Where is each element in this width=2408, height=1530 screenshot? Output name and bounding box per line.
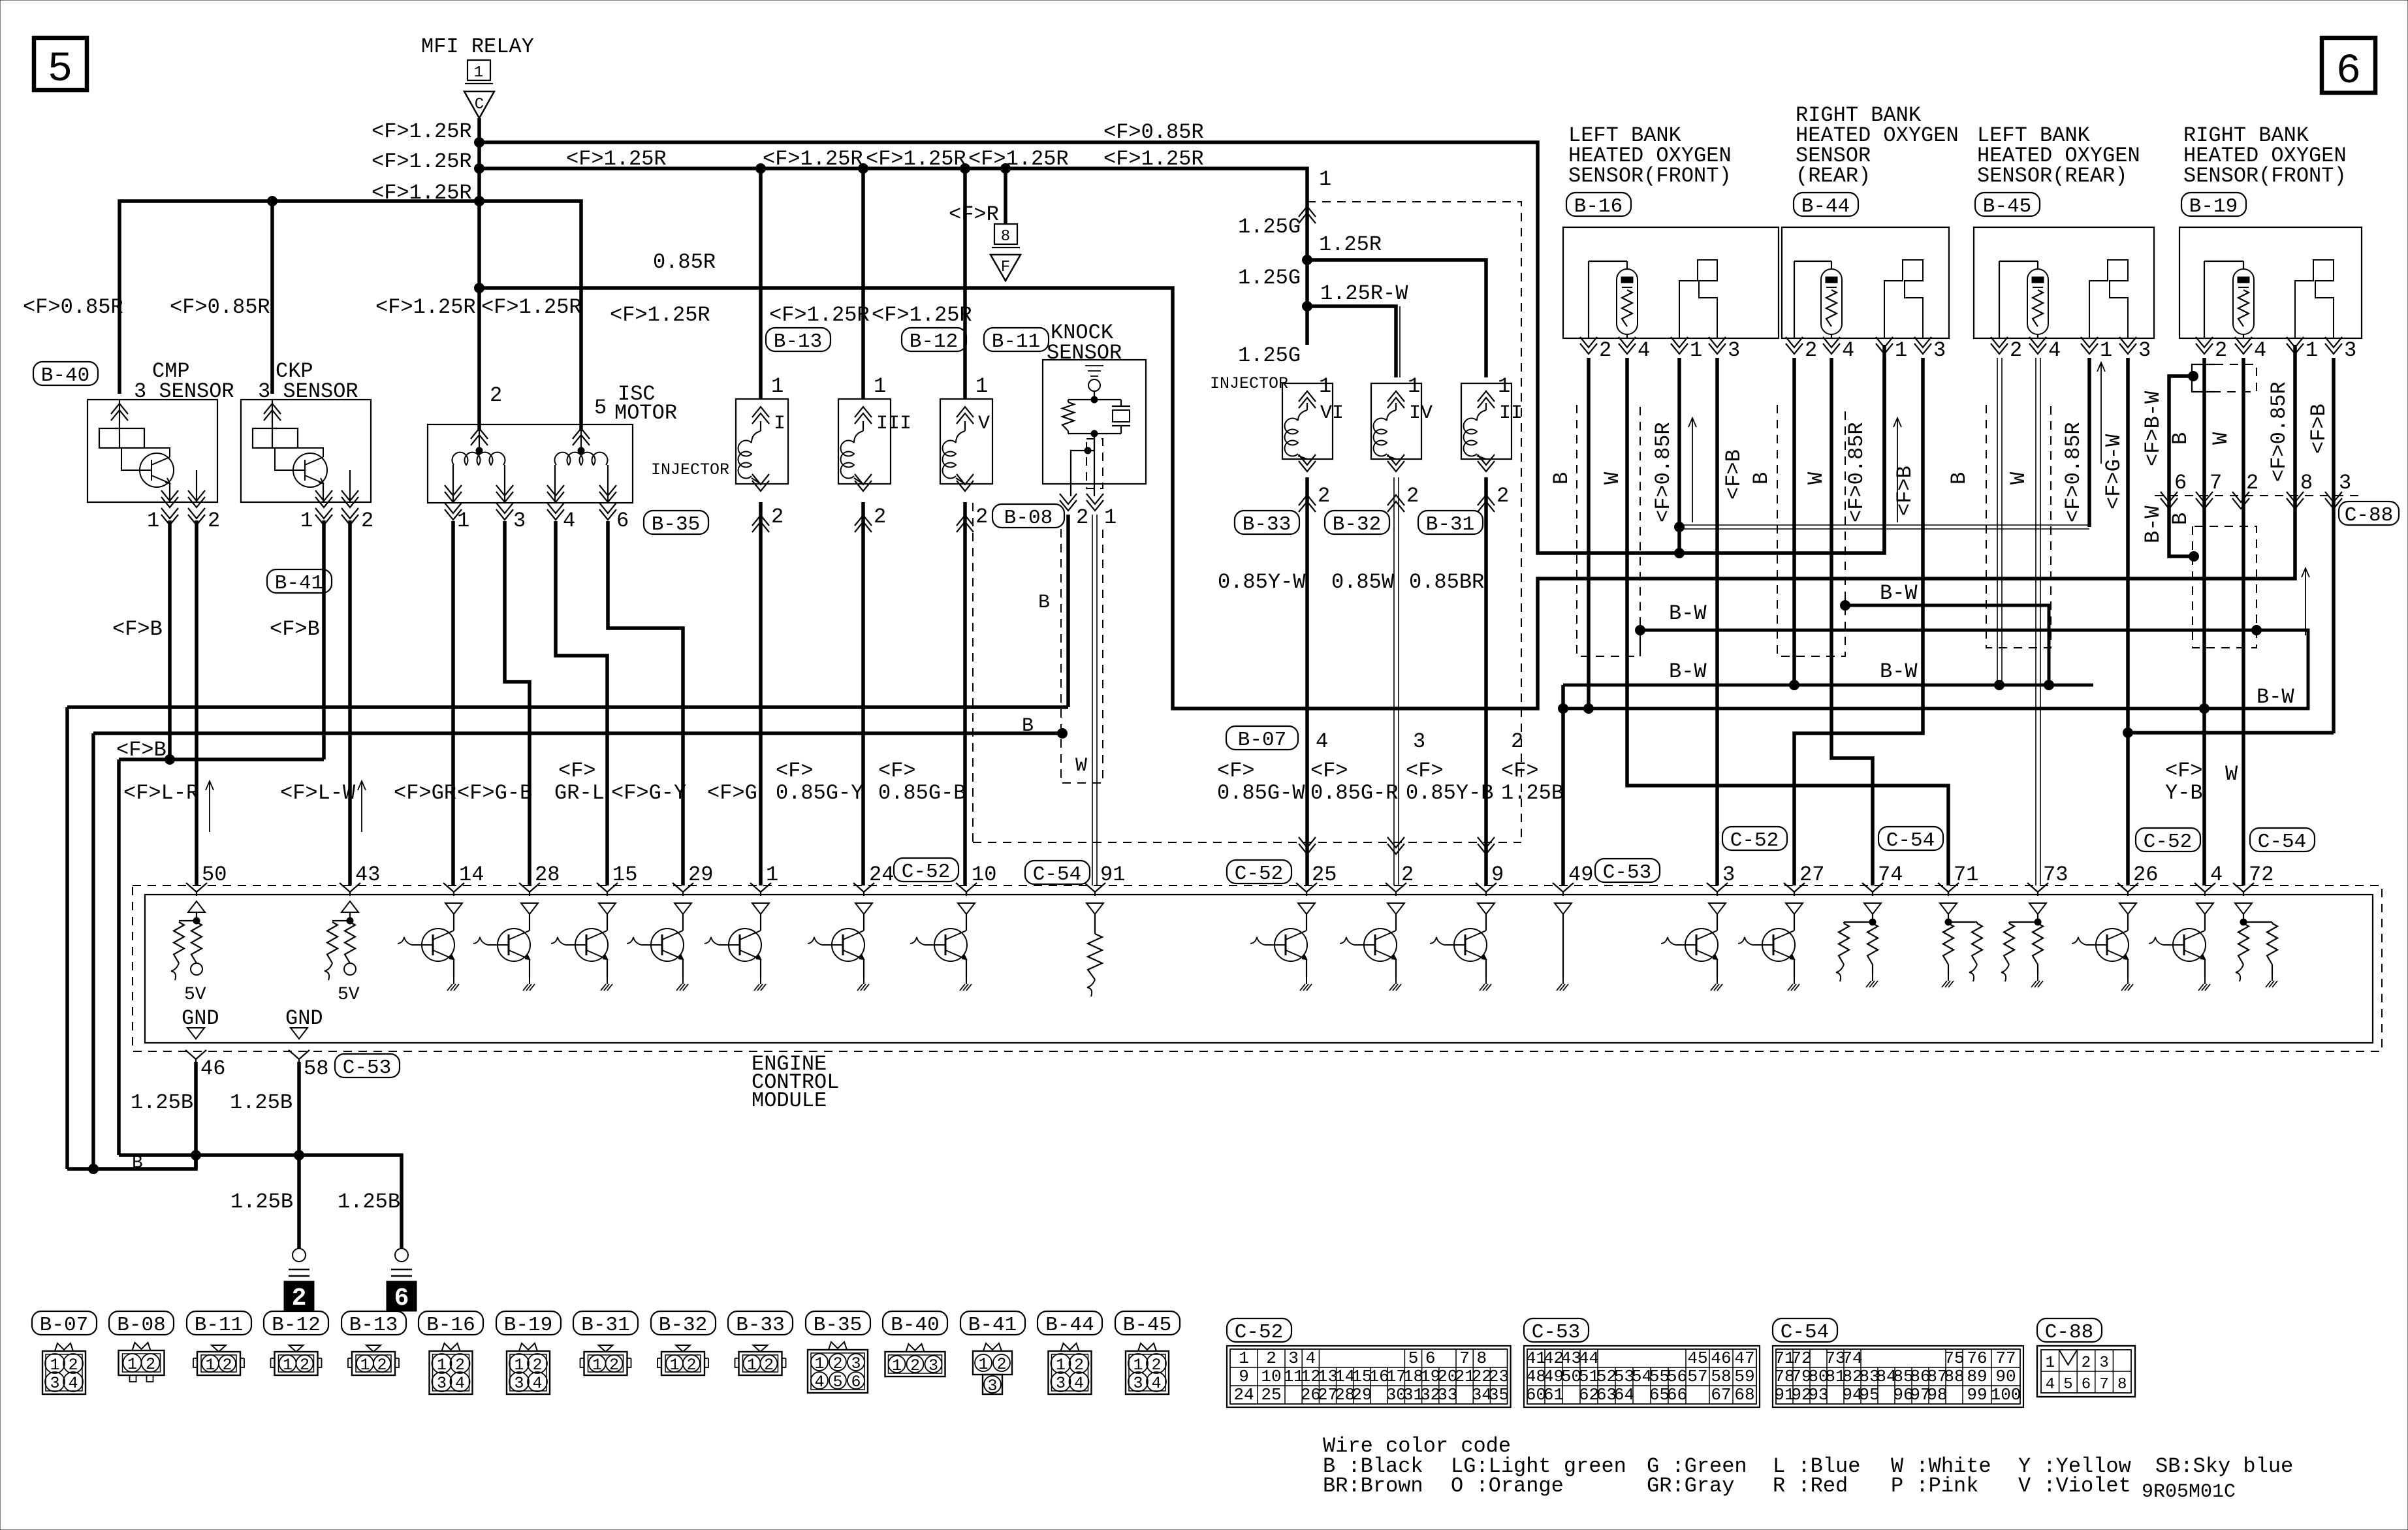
svg-text:<F>0.85R: <F>0.85R xyxy=(23,295,123,319)
svg-text:4: 4 xyxy=(1074,1374,1084,1393)
svg-text:89: 89 xyxy=(1967,1367,1987,1386)
svg-text:98: 98 xyxy=(1927,1385,1947,1405)
svg-text:1.25R: 1.25R xyxy=(1319,232,1382,257)
svg-text:59: 59 xyxy=(1734,1367,1754,1386)
svg-text:<F>: <F> xyxy=(1406,759,1444,783)
connector B-13 pinout xyxy=(341,1311,406,1335)
connector triangle C from MFI relay xyxy=(464,91,494,118)
svg-text:SENSOR: SENSOR xyxy=(1047,341,1122,365)
oxygen sensor B-16 heater xyxy=(1679,260,1717,338)
svg-text:2: 2 xyxy=(686,1356,696,1375)
svg-text:88: 88 xyxy=(1944,1367,1964,1386)
B ground bus right segment to ECM 26 xyxy=(2128,733,2334,885)
svg-text:<F>B: <F>B xyxy=(112,617,163,641)
svg-text:2: 2 xyxy=(910,1356,920,1375)
svg-text:B-32: B-32 xyxy=(659,1314,707,1337)
svg-text:1: 1 xyxy=(747,1356,757,1375)
labels B-33 B-32 B-31 xyxy=(1235,511,1299,534)
oxygen sensor B-44 box xyxy=(1782,227,1949,338)
labels B-13 B-12 B-11 xyxy=(766,328,831,351)
connector B-07 pinout xyxy=(32,1311,97,1335)
svg-text:5: 5 xyxy=(2063,1376,2072,1394)
svg-text:<F>1.25R: <F>1.25R xyxy=(566,147,667,171)
svg-text:1: 1 xyxy=(360,1356,370,1375)
svg-text:0.85G-Y: 0.85G-Y xyxy=(776,781,863,805)
oxygen sensor B-19 heater xyxy=(2295,260,2334,338)
svg-text:B-16: B-16 xyxy=(426,1314,475,1337)
svg-text:2: 2 xyxy=(975,505,988,529)
svg-text:5: 5 xyxy=(48,46,72,93)
svg-text:B-31: B-31 xyxy=(1426,513,1474,536)
svg-text:1.25B: 1.25B xyxy=(230,1091,293,1115)
svg-text:4: 4 xyxy=(1842,338,1854,362)
svg-text:B-19: B-19 xyxy=(504,1314,552,1337)
svg-text:2: 2 xyxy=(361,509,373,533)
svg-text:2: 2 xyxy=(146,1355,155,1374)
svg-text:<F>: <F> xyxy=(878,759,916,783)
svg-text:99: 99 xyxy=(1967,1385,1987,1405)
svg-text:<F>G-B: <F>G-B xyxy=(457,781,532,805)
connector B-11 pinout xyxy=(187,1311,251,1335)
svg-text:2: 2 xyxy=(874,505,886,529)
svg-text:1: 1 xyxy=(892,1356,902,1375)
oxygen sensor B-45 element xyxy=(1999,261,2000,338)
svg-text:44: 44 xyxy=(1579,1348,1599,1368)
svg-text:C-52: C-52 xyxy=(1235,863,1283,885)
B-W upper link xyxy=(1841,601,1850,611)
svg-text:49: 49 xyxy=(1568,863,1593,887)
svg-text:10: 10 xyxy=(972,863,996,887)
svg-text:<F>L-W: <F>L-W xyxy=(280,781,356,805)
svg-text:2: 2 xyxy=(1401,863,1414,887)
svg-text:7: 7 xyxy=(1459,1348,1470,1368)
svg-text:2: 2 xyxy=(996,1355,1006,1374)
svg-text:47: 47 xyxy=(1734,1348,1754,1368)
B ground bus left segment xyxy=(93,731,1062,735)
connector B-12 pinout xyxy=(264,1311,328,1335)
svg-text:C-53: C-53 xyxy=(1532,1321,1580,1344)
svg-text:100: 100 xyxy=(1991,1385,2021,1405)
svg-text:0.85Y-B: 0.85Y-B xyxy=(1406,781,1493,805)
svg-text:1: 1 xyxy=(766,863,778,887)
injector II wire to ECM 9 xyxy=(1484,477,1488,885)
svg-text:8: 8 xyxy=(2300,471,2313,495)
svg-text:B-12: B-12 xyxy=(272,1314,320,1337)
svg-text:INJECTOR: INJECTOR xyxy=(1210,374,1288,393)
svg-text:56: 56 xyxy=(1667,1367,1687,1386)
svg-text:O :Orange: O :Orange xyxy=(1451,1474,1564,1498)
svg-text:R :Red: R :Red xyxy=(1773,1474,1848,1498)
svg-text:4: 4 xyxy=(455,1374,465,1393)
wire 1.25R bus y=258 feeding injectors I/III/V and resistor pack xyxy=(479,168,1307,345)
svg-text:B-45: B-45 xyxy=(1983,195,2031,218)
svg-text:1.25B: 1.25B xyxy=(230,1190,293,1214)
svg-text:93: 93 xyxy=(1808,1385,1828,1405)
svg-text:<F>1.25R: <F>1.25R xyxy=(769,303,870,327)
svg-text:1.25R-W: 1.25R-W xyxy=(1320,281,1408,306)
svg-text:1: 1 xyxy=(1319,167,1331,191)
svg-text:B-W: B-W xyxy=(1880,660,1918,684)
svg-text:2: 2 xyxy=(300,1356,309,1375)
injector III B-1x xyxy=(861,168,865,399)
svg-text:3: 3 xyxy=(851,1354,861,1373)
svg-text:1: 1 xyxy=(283,1356,293,1375)
svg-text:68: 68 xyxy=(1734,1385,1754,1405)
CMP pin wires xyxy=(168,520,172,759)
svg-text:C-53: C-53 xyxy=(1603,861,1651,884)
svg-text:<F>: <F> xyxy=(1501,759,1539,783)
svg-text:1.25G: 1.25G xyxy=(1238,266,1301,290)
injector V B-1x xyxy=(963,168,967,399)
svg-text:GND: GND xyxy=(182,1006,219,1030)
svg-text:<F>0.85R: <F>0.85R xyxy=(1651,422,1675,522)
svg-text:4: 4 xyxy=(2210,863,2223,887)
ground ref box 6 xyxy=(387,1281,417,1311)
svg-text:B: B xyxy=(2168,432,2193,445)
oxygen sensor B-16 pins xyxy=(1580,337,1597,354)
oxygen sensor B-44 element xyxy=(1794,261,1795,338)
svg-text:V: V xyxy=(978,413,990,435)
svg-text:1: 1 xyxy=(1690,338,1702,362)
svg-text:C-52: C-52 xyxy=(902,861,950,884)
svg-text:1: 1 xyxy=(874,374,886,398)
wire CKP 0.85R drop xyxy=(270,201,274,394)
svg-text:<F>B: <F>B xyxy=(1893,466,1917,516)
svg-text:2: 2 xyxy=(771,505,784,529)
svg-text:<F>0.85R: <F>0.85R xyxy=(1845,422,1869,522)
svg-text:2: 2 xyxy=(1406,484,1419,508)
thin 0.85R link to B-45 xyxy=(1679,525,2089,529)
svg-text:5V: 5V xyxy=(184,985,206,1005)
svg-text:B-08: B-08 xyxy=(117,1314,165,1337)
B-16 pin3 wire to ECM 3 xyxy=(1715,358,1719,885)
svg-text:4: 4 xyxy=(563,509,575,533)
svg-text:B-40: B-40 xyxy=(891,1314,939,1337)
svg-text:<F>1.25R: <F>1.25R xyxy=(763,147,863,171)
connector triangle F xyxy=(990,255,1021,281)
ECM connector labels xyxy=(894,858,958,882)
svg-text:B-W: B-W xyxy=(2257,685,2294,709)
svg-text:1.25B: 1.25B xyxy=(338,1190,400,1214)
B-44 shield dashed box xyxy=(1777,405,1845,656)
svg-text:8: 8 xyxy=(1476,1348,1487,1368)
svg-text:B-35: B-35 xyxy=(652,513,700,536)
svg-text:0.85BR: 0.85BR xyxy=(1409,570,1484,594)
svg-text:Y-B: Y-B xyxy=(2165,781,2203,805)
B-W lower link pin49 xyxy=(1563,684,2093,687)
svg-text:6: 6 xyxy=(2082,1376,2091,1394)
svg-text:B-W: B-W xyxy=(1669,660,1707,684)
svg-text:B-31: B-31 xyxy=(581,1314,629,1337)
svg-text:2: 2 xyxy=(764,1356,774,1375)
svg-text:B-40: B-40 xyxy=(41,364,89,387)
connector B-35 pinout xyxy=(806,1311,870,1335)
svg-text:I: I xyxy=(774,413,785,435)
svg-text:VI: VI xyxy=(1320,402,1344,424)
junction dots on MFI feed xyxy=(475,138,484,148)
oxygen sensor B-45 label xyxy=(1975,193,2040,216)
svg-text:B: B xyxy=(132,1153,143,1173)
junction dot CKP feed xyxy=(268,197,277,206)
injector VI wire to ECM 25 xyxy=(1305,477,1309,885)
svg-text:64: 64 xyxy=(1614,1385,1634,1405)
oxygen sensor B-44 label xyxy=(1794,193,1858,216)
svg-text:24: 24 xyxy=(1233,1385,1254,1405)
svg-text:2: 2 xyxy=(2246,471,2258,495)
svg-text:2: 2 xyxy=(292,1284,307,1313)
svg-text:75: 75 xyxy=(1944,1348,1964,1368)
svg-text:<F>L-R: <F>L-R xyxy=(123,781,198,805)
svg-text:6: 6 xyxy=(1425,1348,1436,1368)
knock sensor shield dashed xyxy=(1061,529,1103,783)
svg-text:3: 3 xyxy=(1933,338,1946,362)
B-45 pin4 W thin wire to ECM 73 xyxy=(2036,358,2040,885)
ground symbol left xyxy=(293,1249,306,1262)
svg-text:1: 1 xyxy=(1104,505,1117,530)
svg-text:1.25G: 1.25G xyxy=(1238,215,1301,239)
svg-text:B-33: B-33 xyxy=(1243,513,1291,536)
svg-text:2: 2 xyxy=(2082,1354,2091,1372)
svg-text:B: B xyxy=(1749,472,1773,485)
svg-text:1: 1 xyxy=(592,1356,602,1375)
B-W web wires xyxy=(1636,626,1645,635)
junction dots on 1.25R bus xyxy=(756,164,766,174)
oxygen sensor B-19 pins xyxy=(2196,337,2213,354)
B-44 pin1 heater wire xyxy=(1882,358,1886,553)
oxygen sensor B-16 box xyxy=(1563,227,1779,338)
oxygen sensor B-45 heater xyxy=(2089,260,2128,338)
knock B wire pin2 xyxy=(1066,515,1070,707)
svg-text:7: 7 xyxy=(2210,471,2222,495)
oxygen sensor B-45 pins xyxy=(1991,337,2008,354)
B-16 pin2 B wire xyxy=(1587,358,1591,709)
svg-text:C-52: C-52 xyxy=(1730,829,1779,852)
svg-text:4: 4 xyxy=(814,1373,824,1392)
svg-text:76: 76 xyxy=(1967,1348,1987,1368)
svg-text:<F>: <F> xyxy=(1217,759,1255,783)
svg-text:0.85R: 0.85R xyxy=(653,250,716,274)
svg-text:1: 1 xyxy=(1408,374,1420,398)
svg-text:B-32: B-32 xyxy=(1333,513,1381,536)
svg-text:29: 29 xyxy=(1352,1385,1372,1405)
svg-text:B-07: B-07 xyxy=(1238,729,1286,752)
connector box 8 on injector resistor feed xyxy=(1004,168,1007,224)
svg-text:B-W: B-W xyxy=(1669,601,1707,626)
svg-text:1: 1 xyxy=(2100,338,2112,362)
svg-text:14: 14 xyxy=(459,863,484,887)
connector B-33 pinout xyxy=(728,1311,793,1335)
svg-text:B-44: B-44 xyxy=(1801,195,1850,218)
svg-text:B-W: B-W xyxy=(1880,581,1918,605)
knock piezo resistor xyxy=(1068,400,1069,402)
svg-text:MOTOR: MOTOR xyxy=(614,401,677,425)
svg-text:2: 2 xyxy=(1511,729,1523,754)
label B-07 xyxy=(1226,726,1298,750)
svg-text:6: 6 xyxy=(851,1373,861,1392)
svg-text:INJECTOR: INJECTOR xyxy=(651,460,729,479)
svg-text:W: W xyxy=(1600,471,1624,485)
svg-text:26: 26 xyxy=(2133,863,2158,887)
knock crystal xyxy=(1120,400,1122,406)
svg-text:C-54: C-54 xyxy=(1886,829,1935,852)
svg-text:29: 29 xyxy=(688,863,713,887)
svg-text:<F>1.25R: <F>1.25R xyxy=(866,147,966,171)
ECM internal transistors xyxy=(445,903,462,914)
C-88 connector pins xyxy=(2161,492,2178,509)
svg-text:35: 35 xyxy=(1489,1385,1509,1405)
connector B-32 pinout xyxy=(651,1311,716,1335)
svg-text:0.85W: 0.85W xyxy=(1331,570,1395,594)
svg-text:9: 9 xyxy=(1491,863,1504,887)
wire 0.85R bus y=218 to B-16/B-44 heater feed xyxy=(479,142,1884,553)
svg-text:10: 10 xyxy=(1261,1367,1281,1386)
svg-text:C-88: C-88 xyxy=(2045,1321,2093,1344)
injector III output wire xyxy=(861,502,865,885)
svg-text:MODULE: MODULE xyxy=(752,1089,827,1113)
svg-text:3: 3 xyxy=(1056,1374,1066,1393)
svg-text:46: 46 xyxy=(1711,1348,1731,1368)
wire 1.25R-W to injector IV xyxy=(1307,306,1396,377)
svg-text:B-13: B-13 xyxy=(349,1314,398,1337)
svg-text:1: 1 xyxy=(1498,374,1510,398)
svg-text:C-88: C-88 xyxy=(2345,504,2393,527)
svg-text:2: 2 xyxy=(1318,484,1330,508)
svg-text:<F>1.25R: <F>1.25R xyxy=(610,303,710,327)
svg-text:B-13: B-13 xyxy=(774,330,822,353)
svg-text:C-54: C-54 xyxy=(2258,831,2306,853)
svg-text:V :Violet: V :Violet xyxy=(2018,1474,2131,1498)
MFI relay connector box 1 xyxy=(467,60,490,80)
svg-text:4: 4 xyxy=(2046,1376,2055,1394)
svg-text:3: 3 xyxy=(1413,729,1425,754)
connector B-08 pinout xyxy=(109,1311,174,1335)
svg-text:1: 1 xyxy=(1895,338,1907,362)
ISC coil 1 xyxy=(479,424,480,451)
svg-text:B-44: B-44 xyxy=(1045,1314,1094,1337)
svg-text:43: 43 xyxy=(355,863,380,887)
connector B-16 pinout xyxy=(419,1311,483,1335)
svg-text:<F>R: <F>R xyxy=(949,202,999,227)
svg-text:3: 3 xyxy=(437,1374,447,1393)
svg-text:61: 61 xyxy=(1544,1385,1564,1405)
svg-text:C-54: C-54 xyxy=(1781,1321,1829,1344)
svg-text:<F>: <F> xyxy=(2165,759,2203,783)
connector C-52 pin table xyxy=(1227,1318,1291,1342)
svg-text:57: 57 xyxy=(1687,1367,1707,1386)
svg-text:C-52: C-52 xyxy=(2144,831,2192,853)
svg-text:B-41: B-41 xyxy=(275,572,323,595)
svg-text:90: 90 xyxy=(1995,1367,2016,1386)
svg-text:(REAR): (REAR) xyxy=(1796,164,1871,188)
svg-text:1: 1 xyxy=(814,1354,824,1373)
ISC pin wires to ECM xyxy=(451,521,455,885)
svg-text:5: 5 xyxy=(832,1373,842,1392)
svg-text:4: 4 xyxy=(532,1374,542,1393)
svg-text:B: B xyxy=(1038,592,1050,614)
svg-text:3: 3 xyxy=(513,509,526,533)
svg-text:1: 1 xyxy=(474,64,483,82)
svg-text:<F>1.25R: <F>1.25R xyxy=(1103,147,1204,171)
svg-text:0.85G-W: 0.85G-W xyxy=(1217,781,1305,805)
svg-text:B: B xyxy=(1947,472,1971,485)
ECM ground wires xyxy=(194,1062,198,1169)
svg-text:II: II xyxy=(1499,402,1523,424)
svg-text:28: 28 xyxy=(535,863,560,887)
svg-text:2: 2 xyxy=(1599,338,1611,362)
svg-text:5: 5 xyxy=(594,396,607,420)
svg-text:4: 4 xyxy=(1305,1348,1316,1368)
svg-text:B-16: B-16 xyxy=(1574,195,1623,218)
svg-text:<F>1.25R: <F>1.25R xyxy=(372,120,472,144)
svg-text:B: B xyxy=(1022,715,1034,737)
svg-text:6: 6 xyxy=(2336,48,2361,95)
B-19 pin4 W wire to ECM 72 xyxy=(2242,358,2245,885)
svg-text:2: 2 xyxy=(609,1356,619,1375)
svg-text:B-45: B-45 xyxy=(1123,1314,1171,1337)
B-45 pin3 wire to ECM 26 xyxy=(2126,358,2130,733)
svg-text:77: 77 xyxy=(1995,1348,2016,1368)
svg-text:P :Pink: P :Pink xyxy=(1891,1474,1978,1498)
svg-text:23: 23 xyxy=(1489,1367,1509,1386)
svg-text:1.25B: 1.25B xyxy=(131,1091,193,1115)
svg-text:1: 1 xyxy=(147,509,159,533)
svg-text:4: 4 xyxy=(1638,338,1650,362)
svg-text:2: 2 xyxy=(2215,338,2227,362)
svg-text:1: 1 xyxy=(457,509,469,533)
svg-text:3: 3 xyxy=(928,1356,938,1375)
B-45 pin1 heater wire xyxy=(2087,358,2091,527)
svg-text:<F>: <F> xyxy=(1310,759,1348,783)
svg-text:4: 4 xyxy=(2254,338,2266,362)
svg-text:B-07: B-07 xyxy=(40,1314,88,1337)
svg-text:2: 2 xyxy=(832,1354,842,1373)
svg-text:6: 6 xyxy=(616,509,629,533)
svg-text:5V: 5V xyxy=(338,985,360,1005)
sheet number box 5 xyxy=(34,38,87,90)
connector B-31 pinout xyxy=(573,1311,638,1335)
svg-text:2: 2 xyxy=(1805,338,1817,362)
svg-text:15: 15 xyxy=(612,863,637,887)
svg-text:2: 2 xyxy=(377,1356,387,1375)
svg-text:1: 1 xyxy=(978,1355,988,1374)
svg-text:B-12: B-12 xyxy=(910,330,958,353)
svg-text:66: 66 xyxy=(1667,1385,1687,1405)
ECM pin49 internal xyxy=(1555,903,1572,914)
B-45 shield dashed box xyxy=(1986,405,2051,648)
svg-text:W: W xyxy=(2209,432,2233,445)
svg-text:C-53: C-53 xyxy=(343,1057,391,1079)
svg-text:27: 27 xyxy=(1799,863,1824,887)
svg-text:W: W xyxy=(2225,762,2238,786)
svg-text:2: 2 xyxy=(2010,338,2022,362)
injector V output wire xyxy=(963,502,967,885)
svg-text:74: 74 xyxy=(1878,863,1903,887)
svg-text:SB:Sky blue: SB:Sky blue xyxy=(2155,1454,2293,1478)
svg-text:III: III xyxy=(876,413,911,435)
svg-text:1: 1 xyxy=(669,1356,679,1375)
svg-text:58: 58 xyxy=(1711,1367,1731,1386)
svg-text:<F>B-W: <F>B-W xyxy=(2141,390,2165,466)
oxygen sensor B-19 element xyxy=(2204,261,2205,338)
svg-text:1: 1 xyxy=(205,1356,215,1375)
svg-text:<F>G-Y: <F>G-Y xyxy=(611,781,686,805)
wire main 1.25R vertical from MFI relay to ISC motor pin 2 xyxy=(477,118,481,431)
svg-text:<F>G: <F>G xyxy=(707,781,757,805)
pull-up arrows beside pins 50/43 xyxy=(206,781,214,832)
svg-text:67: 67 xyxy=(1711,1385,1731,1405)
svg-text:2: 2 xyxy=(1076,505,1088,530)
connector C-54 pin table xyxy=(1773,1318,1837,1342)
